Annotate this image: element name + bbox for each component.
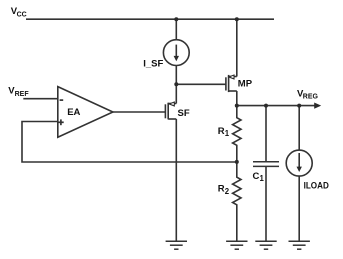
svg-text:1: 1 (260, 174, 265, 183)
svg-text:CC: CC (17, 11, 27, 18)
svg-text:REG: REG (303, 94, 319, 101)
svg-text:REF: REF (15, 91, 30, 98)
svg-text:R: R (218, 184, 225, 195)
svg-text:1: 1 (225, 129, 230, 138)
svg-text:2: 2 (225, 187, 230, 196)
svg-text:C: C (253, 171, 260, 182)
svg-text:ILOAD: ILOAD (304, 181, 329, 192)
svg-text:I_SF: I_SF (143, 58, 163, 69)
svg-text:SF: SF (178, 108, 190, 119)
svg-text:MP: MP (238, 79, 253, 90)
svg-text:R: R (218, 126, 225, 137)
svg-text:EA: EA (67, 107, 80, 118)
